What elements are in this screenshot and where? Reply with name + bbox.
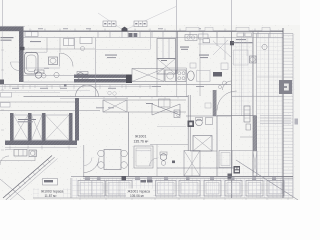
svg-text:Ж1003 тераса: Ж1003 тераса (41, 190, 63, 194)
bottom-left bar 2 (28, 113, 32, 141)
big door arc right room (217, 91, 237, 111)
right margin mark (295, 119, 299, 125)
X panel 1 (14, 115, 29, 140)
door arc bath (60, 53, 74, 67)
bottom-left bar 1 (10, 113, 14, 141)
vline x150.5 top (150, 31, 152, 49)
interior wall line y49 (24, 48, 96, 50)
mid band terminal block (126, 75, 132, 84)
dim text 170 (146, 103, 153, 104)
door leaf bath (59, 53, 61, 67)
dark box below (228, 174, 233, 180)
left edge vline (1, 31, 3, 90)
hline y115.5 right (217, 115, 256, 117)
bottom-left dark band (5, 141, 77, 146)
interior vline x225 (224, 38, 226, 61)
stove burners (178, 72, 181, 75)
narrow X strip right (253, 151, 257, 176)
svg-text:105.06 м²: 105.06 м² (130, 194, 144, 198)
toilet bottom center (160, 154, 167, 161)
mid-right faint terrace (217, 152, 256, 177)
svg-text:11.87 м²: 11.87 м² (45, 194, 57, 198)
sofa right room (219, 151, 232, 168)
sight diagonal right (125, 6, 177, 30)
svg-text:Ж1001 тераса: Ж1001 тераса (128, 190, 150, 194)
elevation boxes (25, 32, 38, 37)
stair ticks on diagonal (8, 159, 50, 196)
closet dividers (163, 39, 169, 59)
bidet bowl small (84, 74, 89, 79)
kitchen sink box (29, 150, 37, 157)
top-left wall L vertical (19, 27, 24, 83)
chair tr (121, 150, 128, 157)
bathroom upper boxes A divider (68, 39, 70, 46)
main top wall line (22, 30, 283, 32)
room text smudge topleft (30, 41, 41, 42)
bathroom vline x217 (216, 116, 218, 176)
dim line y90 (0, 89, 90, 91)
middle axis wall vline (176, 31, 178, 74)
svg-text:Ж1001: Ж1001 (135, 134, 146, 138)
vline x176.8 lower (176, 74, 178, 97)
small circle below boxes (81, 47, 85, 51)
hline y160.5 left (0, 160, 35, 162)
closet X lower (157, 59, 176, 75)
hline y150.5 right (232, 150, 254, 152)
small drain circle (54, 72, 59, 77)
vline x157 lower (156, 74, 158, 97)
right terrace rail bands (260, 115, 291, 123)
X panel 2 (32, 115, 43, 140)
small box above sink right (190, 63, 196, 68)
planter 4 (204, 181, 221, 197)
bidet bowl big (77, 73, 84, 80)
vline x241 (241, 38, 243, 116)
label box A marks (108, 21, 112, 27)
bathroom toilet tank (196, 118, 203, 121)
vline x35 left (34, 150, 36, 161)
bathroom upper boxes A (64, 39, 75, 46)
right terrace tile grid (257, 34, 284, 199)
kitchen sink circle (30, 151, 35, 156)
hline y68 kitchen top (165, 67, 187, 69)
dim ticks y147.5 (10, 146, 69, 150)
right edge vline x293 (292, 34, 294, 199)
terrace main edge line (83, 176, 293, 178)
living room left wall lower (83, 145, 85, 177)
sight diag mid B (213, 40, 228, 55)
bathroom dark box notch (189, 122, 192, 125)
dining table ends (152, 104, 180, 115)
top-right label boxes (237, 33, 244, 37)
small circles right (223, 81, 227, 85)
dim ticks mid (5, 85, 150, 89)
left rooms hline y102 (0, 101, 75, 103)
hline y44 right rooms (198, 43, 231, 45)
vline x74.5 top room (74, 38, 76, 50)
dark box x230 (230, 41, 234, 45)
sink box (49, 57, 58, 65)
faint top label E (262, 27, 270, 31)
secondary top wall line (23, 37, 283, 39)
vline x217 top (216, 31, 218, 46)
door arc small right (223, 81, 232, 90)
closet top-middle (157, 39, 176, 59)
planter 2 (106, 181, 132, 197)
wall hline y96.5 (24, 96, 189, 98)
faint top label D (236, 27, 249, 31)
mid band left thin lines (24, 75, 75, 82)
bold vline x283 (282, 28, 284, 198)
vline x247 (246, 38, 248, 57)
faint inner grid right room (232, 38, 253, 116)
faint top label C (186, 27, 199, 31)
toilet bowl big (35, 72, 41, 78)
vline x95.5 bath divider (95, 38, 97, 97)
door arcs center (84, 158, 99, 173)
dark block on terrace edge (122, 176, 127, 181)
bath vanity upper (205, 103, 211, 108)
terrace hlines faint (257, 76, 293, 78)
paper background (0, 0, 300, 200)
chair bl (98, 162, 105, 169)
interior vline x47 (46, 38, 48, 53)
terrace edge small mark 4 (147, 177, 152, 180)
tiny sq on dim line (64, 84, 67, 87)
sink bowl (50, 58, 56, 63)
ticks below wall y96.5 (104, 97, 178, 99)
extra dim smudges (12, 88, 19, 89)
dresser top left room (159, 99, 171, 107)
center-left wall bar (75, 98, 79, 141)
dark box pair below labels (129, 33, 133, 37)
central wall vline pair (188, 95, 190, 151)
bottom edge line (33, 197, 293, 199)
shower X (193, 136, 212, 152)
terrace edge small mark 3 (135, 177, 140, 180)
scan grain overlay (0, 25, 296, 200)
top-right bath toilet bowl (250, 57, 255, 62)
bathroom hline y116 (186, 115, 231, 117)
small arc left edge (0, 156, 9, 165)
interior vline x60 (59, 38, 61, 53)
bottom tick row (80, 198, 288, 200)
wall vline x231 full (231, 31, 233, 198)
rug inner (136, 148, 151, 166)
small door arc left (150, 158, 158, 166)
mid hatched wall band lower (74, 79, 132, 83)
window X diagonals (103, 100, 127, 112)
svg-text:135.76 м²: 135.76 м² (134, 139, 150, 143)
hline y168 center-right (157, 167, 235, 169)
washer box (165, 70, 176, 82)
bath top edge (24, 51, 48, 53)
bathroom dark box (188, 121, 195, 128)
top-right box outline (250, 56, 257, 63)
window X band (103, 100, 127, 112)
closet X diagonals (157, 59, 176, 75)
chair br (121, 162, 128, 169)
counter right of sink (197, 71, 211, 82)
skylight X diagonals (132, 69, 164, 82)
dark mark center (172, 161, 175, 164)
fixture rect top-right (234, 50, 249, 65)
threshold dark dash (44, 180, 53, 182)
top-right sink (262, 44, 267, 49)
parallel faint diagonal (10, 159, 58, 201)
rug inner divider (136, 150, 151, 152)
shower box (193, 136, 212, 152)
toilet tank (35, 70, 45, 73)
lower diagonal C (0, 179, 25, 200)
dark box mid-right (213, 72, 222, 77)
hatched bar right x253 (253, 116, 257, 152)
threshold box bottom-left (43, 179, 58, 186)
bathroom cab (206, 118, 213, 125)
label box B marks (139, 21, 143, 27)
room text smudges (180, 47, 189, 48)
dining table X (152, 104, 180, 115)
terrace hline left part (71, 176, 83, 178)
bottom-left text smudges (18, 119, 36, 120)
faint rect mid-right room (221, 63, 228, 70)
big door arc center-left (76, 85, 99, 96)
right ladder strip (283, 34, 293, 199)
bottom right diagonal (236, 160, 298, 200)
tiny smudge bath (44, 67, 49, 70)
washer drum (167, 72, 174, 79)
wardrobe right (244, 106, 250, 122)
gray rail band (234, 42, 253, 44)
tiny dim numbers top (38, 27, 43, 30)
corridor door arc (11, 62, 20, 71)
bath hline y151 (190, 150, 217, 152)
address text smudge 2 (1, 40, 12, 41)
top right small box (199, 34, 209, 39)
axis vline upper right (231, 0, 233, 31)
kitchen counter (14, 150, 27, 157)
hline y137 right (240, 136, 253, 138)
X panel 3 (46, 115, 70, 140)
terrace edge marks right (164, 177, 168, 180)
hline y68 bath (24, 67, 61, 69)
hline y92.5 left (12, 92, 61, 94)
bottom terrace hatch (72, 178, 293, 198)
hline y126.5 left room (157, 126, 186, 128)
top strip lighter (0, 0, 300, 25)
bottom-left bar 3 (42, 113, 46, 141)
small circles below wall (108, 91, 112, 95)
planter 1 (78, 181, 105, 197)
vline x71 (70, 178, 72, 198)
bathroom toilet (196, 119, 203, 126)
left dim ticks (1, 50, 4, 150)
dark square inner bar (284, 86, 287, 88)
terrace label backing (126, 189, 153, 198)
terrace edge vline x256.5 (256, 34, 258, 177)
terrace second line (83, 178, 293, 180)
bathtub outer (25, 53, 39, 75)
kitchen counter dividers (19, 150, 24, 157)
window band lines (127, 100, 186, 112)
top-left wall L horizontal (0, 27, 23, 32)
main diagonal B (6, 157, 55, 200)
terrace label backing left (39, 189, 63, 198)
main diagonal A (3, 156, 52, 199)
toilet bowl small (42, 74, 46, 78)
bottom-left mini terrace grid (33, 188, 71, 198)
bathroom upper boxes B (80, 38, 92, 44)
vline x186.5 kitchen (186, 68, 188, 97)
rug outer (134, 146, 153, 168)
bottom-left bar 4 (69, 113, 73, 141)
planter 6 (246, 181, 263, 197)
right small box (246, 124, 251, 130)
long hline y86.5 (0, 86, 160, 88)
elevation boxes divider (31, 32, 33, 37)
label box pair B (134, 21, 147, 27)
terrace edge small mark 2 (97, 177, 101, 180)
top terrace hline (253, 33, 293, 35)
dark square inner notch (284, 84, 289, 91)
kitchen hline y149.5 left (5, 149, 14, 151)
table (104, 150, 121, 170)
faint box x205 top (205, 27, 213, 31)
kitchen sink oval (187, 71, 194, 81)
skylight X panel (132, 69, 164, 82)
vline x268 terrace (268, 34, 270, 177)
terrace edge small mark 1 (85, 177, 90, 180)
hline y144.5 center (150, 144, 188, 146)
terrace label boxes dark (141, 180, 147, 183)
interior vline x200 (199, 38, 201, 97)
dim line under band (5, 147, 77, 149)
fixture box left of bath (174, 110, 180, 118)
wall hline y98.5 (60, 98, 128, 100)
bidet tank (77, 72, 88, 75)
vline x157 center (156, 145, 158, 177)
label box pair A (103, 21, 116, 27)
top-left corner frame hline (0, 26, 25, 28)
rail text smudge (236, 39, 246, 40)
kitchenette circles (187, 36, 190, 39)
dark square with notch (279, 80, 292, 94)
mid hatched wall band upper (74, 75, 132, 78)
planter 2b (156, 181, 177, 197)
dim smudges window band (96, 107, 104, 108)
sight diagonal left (98, 13, 123, 30)
entry arrow (122, 27, 128, 32)
wall vline x253 (252, 31, 254, 176)
sight diag mid A (213, 41, 231, 57)
kitchenette top boxes (185, 35, 197, 41)
planter 3 (179, 181, 200, 197)
planter 7 (267, 181, 284, 197)
left rooms hline y110.5 (0, 110, 100, 112)
top dimension ticks row (30, 29, 270, 31)
balcony door X panel (184, 151, 200, 177)
stove box (177, 70, 187, 82)
room label box (203, 39, 210, 43)
axis vline upper middle (176, 0, 178, 31)
long hline y84.5 (0, 84, 231, 86)
address text smudge 1 (1, 37, 14, 38)
top-left corner frame vline (2, 0, 4, 27)
top wall ticks (98, 31, 270, 37)
room text smudge center (105, 55, 117, 56)
planter 5 (225, 181, 242, 197)
center room vline x128.5 (128, 112, 130, 176)
wall knob (20, 47, 25, 50)
bathtub inner (27, 55, 37, 72)
hatched bar right of bath (213, 90, 217, 116)
dim smudges mid (40, 88, 48, 89)
wardrobe divider (244, 110, 250, 118)
dark blob left edge (0, 80, 4, 85)
chair tl (98, 150, 105, 157)
dark boxes bottom right pair (234, 166, 241, 174)
left axis label boxes (1, 93, 12, 98)
